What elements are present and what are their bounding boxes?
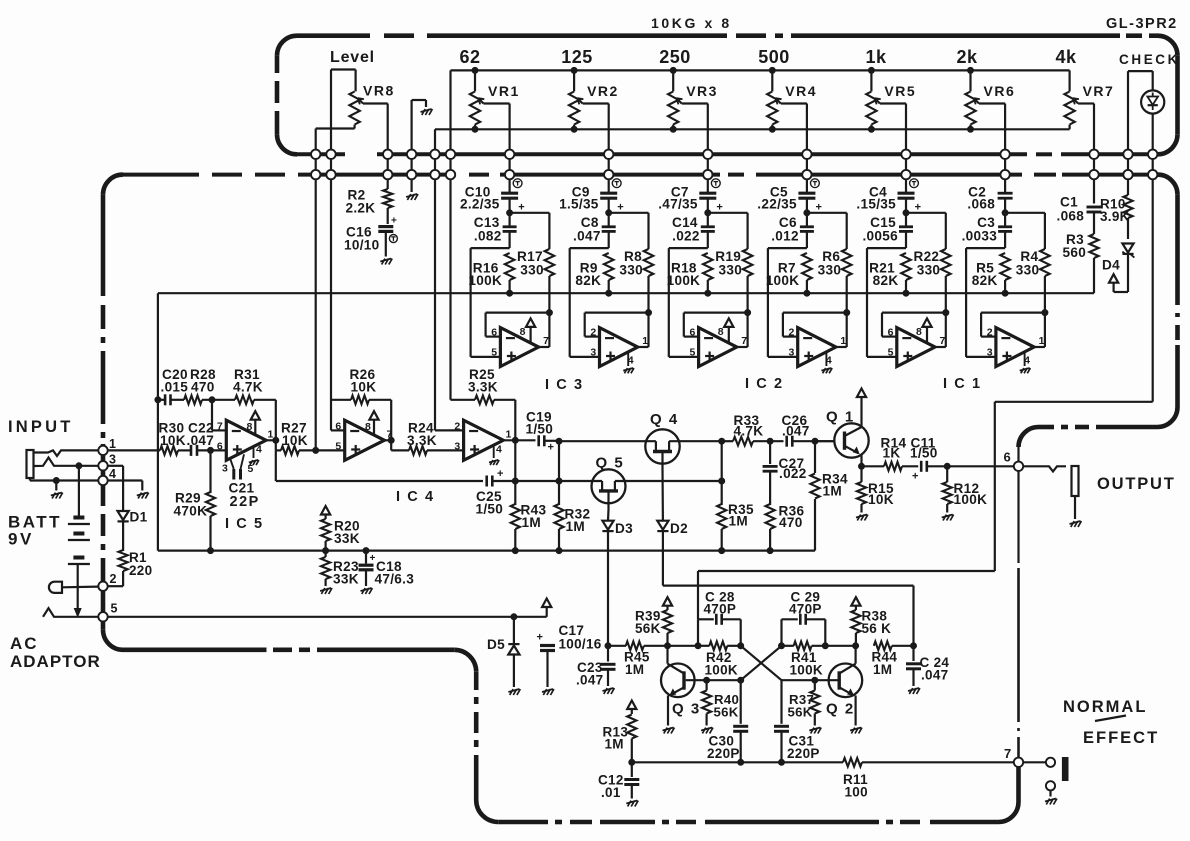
svg-text:R22: R22	[913, 249, 939, 264]
resistor R44 1M	[872, 642, 917, 678]
wire: C5 bottom node to R6 column	[804, 210, 847, 216]
svg-text:R8: R8	[624, 249, 642, 264]
potentiometer VR8 (Level)	[316, 70, 395, 151]
svg-text:330: 330	[520, 263, 544, 278]
label: Level	[330, 49, 375, 66]
svg-text:100/16: 100/16	[559, 637, 602, 652]
board outline: top panel (rounded box, partly dashed)	[277, 36, 1178, 155]
svg-text:100K: 100K	[705, 663, 738, 678]
resistor R23 33K	[320, 551, 359, 594]
diode D2	[657, 468, 688, 586]
node: IC5 non-inverting input junction	[208, 447, 214, 453]
connector pin pair at x=1128	[1123, 149, 1132, 180]
svg-text:7: 7	[217, 421, 223, 433]
wire: pin 5 supply line	[108, 616, 547, 618]
diode D1	[108, 466, 148, 551]
wire: gyrator input branch	[867, 248, 906, 357]
wire: jack sleeve to ground and pin 4	[30, 478, 98, 499]
connector pin pair at x=450.5	[446, 149, 455, 180]
capacitor C24 .047	[906, 646, 949, 694]
divider slash between NORMAL and EFFECT	[1095, 716, 1126, 722]
svg-text:1/50: 1/50	[476, 502, 504, 517]
svg-text:5: 5	[888, 347, 894, 359]
label: AC ADAPTOR	[10, 634, 101, 671]
svg-text:1.5/35: 1.5/35	[559, 197, 599, 212]
AC adaptor center pin	[43, 608, 98, 617]
svg-text:2: 2	[454, 421, 460, 433]
svg-text:56K: 56K	[635, 621, 661, 636]
wire: lower line through Q5 to R35	[615, 478, 725, 484]
capacitor C7 .47/35	[658, 179, 723, 214]
capacitor C11 1/50	[910, 435, 1014, 482]
resistor R17 330	[517, 213, 554, 313]
svg-text:8: 8	[247, 421, 253, 433]
svg-text:330: 330	[917, 263, 941, 278]
board outline: main board right edge (top section)	[1019, 195, 1178, 447]
potentiometer VR2	[569, 70, 619, 150]
svg-text:.047: .047	[576, 672, 603, 687]
label: IC 2	[745, 376, 784, 392]
power arrow at Q1 collector	[857, 389, 866, 398]
svg-text:4: 4	[496, 444, 502, 456]
connector pin pair at x=1152.7	[1148, 149, 1157, 180]
resistor R5 82K	[972, 253, 1010, 296]
connector pin pair at x=1094	[1089, 149, 1098, 180]
svg-text:10K: 10K	[351, 380, 377, 395]
potentiometer VR4	[767, 70, 817, 150]
svg-text:6: 6	[491, 327, 497, 339]
svg-text:+: +	[391, 216, 397, 227]
resistor R7 100K	[766, 253, 812, 296]
resistor R30 10K	[159, 421, 186, 455]
resistor R4 330	[1016, 213, 1050, 313]
wire: LED cathode down to connector row	[1152, 114, 1154, 150]
resistor R12 100K	[942, 463, 988, 520]
svg-text:4: 4	[109, 467, 116, 481]
wire: bias bottom rail	[158, 549, 815, 551]
svg-text:33K: 33K	[334, 531, 360, 546]
svg-text:.15/35: .15/35	[856, 197, 896, 212]
label: frequency 125	[561, 47, 593, 67]
op-amp IC3 a	[491, 318, 549, 366]
svg-text:100K: 100K	[954, 492, 988, 507]
resistor R27 10K	[281, 421, 345, 455]
resistor R3 560	[1063, 232, 1099, 293]
svg-text:C1: C1	[1060, 195, 1078, 210]
resistor R16 100K	[468, 253, 514, 296]
connector pin pair at x=411.6	[407, 149, 416, 180]
svg-text:.01: .01	[601, 785, 621, 800]
svg-text:1M: 1M	[625, 662, 644, 677]
label: NORMAL	[1063, 698, 1147, 716]
svg-text:3: 3	[109, 453, 116, 467]
label: CHECK	[1119, 52, 1180, 67]
svg-text:+: +	[370, 553, 376, 564]
label: IC 3	[545, 377, 584, 393]
power arrow at C17 node	[542, 599, 551, 617]
resistor R21 82K	[869, 253, 911, 296]
svg-text:.0033: .0033	[962, 228, 998, 243]
label: INPUT	[8, 418, 74, 436]
svg-text:VR1: VR1	[488, 83, 520, 99]
resistor R31 4.7K	[233, 367, 276, 440]
resistor R1 220	[108, 550, 153, 586]
svg-text:5: 5	[491, 347, 497, 359]
wire: pot bottom bus	[435, 126, 1070, 150]
svg-text:ADAPTOR: ADAPTOR	[10, 652, 101, 671]
capacitor C31 220P	[774, 680, 820, 765]
svg-text:2: 2	[987, 327, 993, 339]
wire: op-amp feedback loop	[981, 310, 1048, 337]
resistor R33 4.7K	[733, 413, 784, 446]
svg-text:Q 2: Q 2	[826, 701, 855, 718]
svg-text:470P: 470P	[704, 601, 737, 616]
capacitor C19 1/50	[526, 409, 560, 453]
wire: LED return line from flip-flop (check drive)	[698, 180, 1153, 619]
svg-text:1/50: 1/50	[910, 446, 938, 461]
connector pin pair at x=315.7	[311, 149, 320, 180]
svg-text:.022: .022	[672, 228, 700, 243]
svg-text:100K: 100K	[790, 663, 823, 678]
board outline: lower-left vertical edge (dash-dot)	[454, 650, 498, 822]
svg-text:3: 3	[590, 347, 596, 359]
connector pin pair at x=509.6	[505, 149, 514, 180]
svg-text:R4: R4	[1020, 249, 1038, 264]
connector pin pair at x=806.9	[802, 149, 811, 180]
capacitor C26 .047	[782, 413, 835, 447]
wire: op-amp output	[1034, 309, 1045, 347]
potentiometer VR5	[866, 70, 916, 150]
label: frequency 62	[459, 47, 480, 67]
wire: IC5 output	[266, 437, 281, 450]
svg-text:NORMAL: NORMAL	[1063, 698, 1147, 716]
svg-text:47/6.3: 47/6.3	[375, 572, 415, 587]
svg-text:1k: 1k	[865, 47, 887, 67]
wire: op-amp feedback loop	[882, 310, 949, 337]
wire: summing bus (R16-family bottoms to IC5)	[158, 292, 1094, 294]
resistor R26 10K	[350, 367, 392, 440]
wire: pot bottom bus to IC4b inverting input	[435, 180, 464, 430]
resistor R6 330	[818, 213, 852, 313]
label: frequency 2k	[956, 47, 978, 67]
label: IC 1	[943, 376, 982, 392]
svg-text:R19: R19	[715, 249, 741, 264]
connector pin 5	[98, 602, 117, 622]
svg-text:1/50: 1/50	[526, 422, 554, 437]
wire: flip-flop left rail	[605, 643, 626, 649]
svg-text:Q 5: Q 5	[596, 455, 625, 472]
battery BATT 9V	[8, 463, 90, 564]
resistor R10 3.9K	[1100, 180, 1133, 239]
svg-text:6: 6	[217, 441, 223, 453]
svg-text:I C 2: I C 2	[745, 376, 784, 392]
svg-text:10KG x 8: 10KG x 8	[651, 15, 732, 31]
indicator LED CHECK	[1141, 90, 1164, 113]
resistor R39 56K (with supply arrow)	[635, 597, 698, 649]
resistor R29 470K	[174, 450, 216, 553]
svg-text:470P: 470P	[789, 601, 822, 616]
potentiometer VR1	[470, 70, 520, 150]
wire: op-amp feedback loop	[486, 310, 553, 337]
potentiometer VR3	[668, 70, 718, 150]
wire: op-amp feedback loop	[585, 310, 652, 337]
resistor R15 10K	[856, 466, 894, 520]
svg-text:VR6: VR6	[984, 83, 1016, 99]
resistor R25 3.3K	[451, 180, 516, 440]
capacitor C20 .015	[161, 367, 189, 405]
svg-text:4k: 4k	[1055, 47, 1077, 67]
svg-text:I C 3: I C 3	[545, 377, 584, 393]
svg-text:470: 470	[779, 515, 803, 530]
svg-text:56 K: 56 K	[862, 621, 892, 636]
svg-text:6: 6	[335, 421, 341, 433]
wire: C20/R28/R31 upper branch	[155, 293, 165, 550]
capacitor C10 2.2/35	[460, 179, 525, 214]
svg-text:GL-3PR2: GL-3PR2	[1106, 16, 1178, 32]
resistor R45 1M	[624, 642, 668, 678]
svg-text:10K: 10K	[282, 433, 308, 448]
diode D4 (zener)	[1102, 244, 1134, 293]
svg-text:+: +	[912, 471, 919, 483]
svg-text:.022: .022	[779, 466, 807, 481]
svg-text:1M: 1M	[823, 484, 842, 499]
wire: battery minus to AC adaptor line (arrow)	[74, 564, 81, 617]
svg-text:500: 500	[758, 47, 790, 67]
svg-text:62: 62	[459, 47, 480, 67]
svg-text:82K: 82K	[972, 273, 998, 288]
svg-text:5: 5	[111, 602, 118, 616]
capacitor C17 100/16 (electrolytic)	[537, 623, 602, 695]
op-amp IC1 b	[987, 327, 1045, 374]
board outline: divider between OUTPUT pin 6 and footswitch pin 7 (dash-dot)	[1017, 447, 1019, 758]
svg-text:.047: .047	[782, 423, 810, 438]
svg-text:VR4: VR4	[785, 83, 817, 99]
svg-text:8: 8	[365, 421, 371, 433]
resistor R42 100K	[698, 642, 744, 678]
svg-text:1M: 1M	[522, 515, 541, 530]
svg-text:CHECK: CHECK	[1119, 52, 1180, 67]
op-amp IC4 a	[335, 411, 392, 460]
svg-text:.047: .047	[573, 228, 601, 243]
transistor Q2 (NPN flip-flop)	[782, 643, 863, 734]
power arrow for D4	[1109, 274, 1128, 292]
connector pin pair at x=906.0	[901, 149, 910, 180]
svg-text:VR5: VR5	[884, 83, 916, 99]
svg-text:2.2/35: 2.2/35	[460, 197, 500, 212]
wire: gyrator input branch	[669, 248, 708, 357]
wire: C2 bottom node to R4 column	[1002, 210, 1045, 216]
svg-text:3.3K: 3.3K	[468, 380, 498, 395]
capacitor C28 470P	[695, 590, 741, 649]
svg-text:+: +	[497, 468, 504, 480]
svg-text:56K: 56K	[714, 704, 739, 719]
svg-text:470: 470	[191, 380, 215, 395]
svg-text:I C 4: I C 4	[396, 489, 435, 505]
label: EFFECT	[1083, 729, 1159, 747]
svg-text:+: +	[548, 442, 555, 454]
resistor R34 1M	[810, 441, 848, 550]
label: 10KG x 8	[651, 15, 732, 31]
op-amp IC4 b	[454, 420, 511, 465]
capacitor C9 1.5/35	[559, 179, 624, 214]
svg-text:R17: R17	[517, 249, 543, 264]
svg-text:.22/35: .22/35	[757, 197, 797, 212]
wire: C7 bottom node to R19 column	[705, 210, 748, 216]
svg-text:R6: R6	[822, 249, 840, 264]
capacitor C5 .22/35	[757, 179, 822, 214]
wire: C10 bottom node to R17 column	[507, 210, 550, 216]
wire: R33 node tie	[721, 441, 723, 481]
resistor R20 33K (with supply arrow)	[321, 506, 360, 554]
svg-text:I C 1: I C 1	[943, 376, 982, 392]
label: OUTPUT	[1097, 475, 1176, 493]
svg-text:10K: 10K	[868, 492, 894, 507]
svg-text:.068: .068	[1057, 209, 1085, 224]
wire: D2 gate drive to flip-flop right node	[663, 586, 914, 646]
label: frequency 500	[758, 47, 790, 67]
capacitor C12 .01	[598, 762, 639, 806]
svg-text:4.7K: 4.7K	[734, 423, 764, 438]
capacitor C29 470P	[779, 590, 829, 649]
transistor Q3 (NPN flip-flop)	[661, 646, 701, 734]
svg-text:220: 220	[129, 563, 152, 578]
svg-text:VR2: VR2	[587, 83, 619, 99]
wire: op-amp output	[539, 309, 550, 347]
capacitor C25 1/50	[476, 468, 603, 517]
svg-text:330: 330	[619, 263, 643, 278]
board outline: main board left edge with pins 1,3,4,2,5	[103, 195, 123, 650]
label: frequency 250	[659, 47, 691, 67]
svg-text:5: 5	[335, 441, 341, 453]
wire: C4 bottom node to R22 column	[903, 210, 946, 216]
op-amp IC5	[217, 411, 274, 475]
svg-text:220P: 220P	[707, 746, 740, 761]
wire: C9 bottom node to R8 column	[606, 210, 649, 216]
svg-text:330: 330	[1016, 263, 1040, 278]
svg-text:VR8: VR8	[363, 83, 395, 99]
svg-text:.0056: .0056	[862, 228, 898, 243]
diode D5	[487, 614, 520, 695]
svg-text:4.7K: 4.7K	[233, 380, 263, 395]
wire: gyrator input branch	[966, 248, 1005, 357]
svg-text:5: 5	[689, 347, 695, 359]
label: IC 5	[225, 516, 264, 532]
svg-text:D5: D5	[487, 637, 505, 652]
svg-text:D4: D4	[1102, 258, 1120, 273]
svg-text:VR3: VR3	[686, 83, 718, 99]
node: level pot feed to IC4a input	[313, 180, 319, 453]
board outline: bottom edge (dash-dot)	[498, 820, 998, 825]
label: frequency 4k	[1055, 47, 1077, 67]
transistor Q1 (NPN output buffer)	[815, 397, 869, 466]
capacitor C1 .068	[1057, 180, 1102, 234]
svg-text:250: 250	[659, 47, 691, 67]
wire: op-amp output	[935, 309, 946, 347]
svg-text:.47/35: .47/35	[658, 197, 698, 212]
svg-text:+: +	[537, 632, 544, 644]
label: IC 4	[396, 489, 435, 505]
svg-text:2.2K: 2.2K	[346, 201, 376, 216]
svg-text:2k: 2k	[956, 47, 978, 67]
svg-text:3.3K: 3.3K	[407, 433, 437, 448]
connector pin 6	[1003, 450, 1023, 471]
board outline: main board top edge / connector row 2	[103, 175, 1178, 195]
resistor R13 1M (with supply arrow)	[603, 701, 637, 766]
svg-text:125: 125	[561, 47, 593, 67]
resistor R36 470	[766, 503, 805, 553]
capacitor C8 .047	[573, 213, 616, 248]
resistor R9 82K	[575, 253, 613, 296]
wire: op-amp output	[638, 309, 649, 347]
svg-text:1M: 1M	[873, 662, 892, 677]
board outline: AC adaptor edge wire (partly dashed)	[123, 647, 454, 652]
capacitor C22 .047	[178, 421, 226, 456]
diode D3	[602, 510, 633, 646]
svg-text:.047: .047	[921, 668, 948, 683]
svg-text:100K: 100K	[766, 273, 800, 288]
transistor Q5 (JFET switch)	[592, 455, 626, 510]
svg-text:6: 6	[888, 327, 894, 339]
svg-text:33K: 33K	[333, 572, 359, 587]
svg-text:VR7: VR7	[1083, 83, 1115, 99]
capacitor C2 .068	[967, 180, 1012, 213]
wire: op-amp output	[836, 309, 847, 347]
wire: footswitch line to pin 7	[632, 761, 1014, 763]
svg-text:Q 3: Q 3	[672, 701, 701, 718]
svg-text:330: 330	[818, 263, 842, 278]
board outline: bottom edge of top panel / connector row 1	[297, 152, 1158, 156]
capacitor C13 .082	[474, 213, 517, 248]
capacitor C21 22P	[229, 454, 260, 510]
svg-text:OUTPUT: OUTPUT	[1097, 475, 1176, 493]
cross-coupling wires	[741, 646, 782, 680]
wire: op-amp feedback loop	[684, 310, 751, 337]
svg-text:3: 3	[789, 347, 795, 359]
svg-text:3: 3	[987, 347, 993, 359]
connector pin pair at x=608.7	[604, 149, 613, 180]
svg-text:330: 330	[719, 263, 743, 278]
svg-text:.047: .047	[187, 433, 215, 448]
svg-text:D1: D1	[130, 510, 148, 525]
wire: gyrator input branch	[570, 248, 609, 357]
wire: IC4a output	[384, 437, 409, 450]
connector pin pair at x=387.7	[383, 149, 392, 180]
resistor R37 56K	[788, 677, 822, 733]
connector pin pair at x=707.8	[703, 149, 712, 180]
svg-text:AC: AC	[10, 634, 39, 653]
svg-text:1M: 1M	[729, 514, 748, 529]
svg-text:2: 2	[590, 327, 596, 339]
footswitch NORMAL/EFFECT	[1023, 758, 1068, 805]
svg-text:1M: 1M	[605, 737, 624, 752]
capacitor C15 .0056	[862, 213, 913, 248]
svg-text:100K: 100K	[468, 273, 502, 288]
wire: IC5 output lower loop (through C25)	[276, 450, 483, 481]
wire: IC4b output node	[503, 437, 535, 443]
wire: gyrator input branch	[768, 248, 807, 357]
resistor R14 1K	[881, 435, 919, 470]
input jack	[27, 450, 99, 478]
svg-text:2: 2	[110, 572, 117, 586]
label: GL-3PR2	[1106, 16, 1178, 32]
wire: gyrator input branch	[471, 248, 510, 357]
svg-text:6: 6	[689, 327, 695, 339]
connector pin 3	[74, 453, 116, 471]
svg-text:470K: 470K	[174, 503, 208, 518]
resistor R8 330	[619, 213, 653, 313]
svg-text:4: 4	[256, 444, 262, 456]
svg-text:9V: 9V	[8, 530, 34, 549]
